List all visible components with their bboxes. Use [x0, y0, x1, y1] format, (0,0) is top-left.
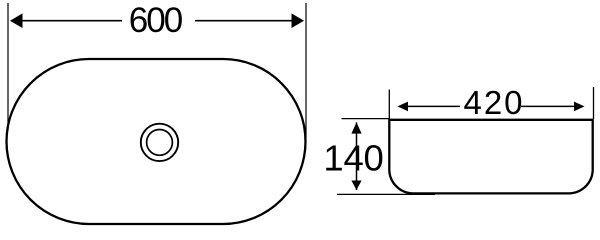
svg-text:420: 420	[463, 84, 524, 121]
svg-text:600: 600	[129, 1, 183, 40]
svg-text:140: 140	[323, 138, 383, 179]
